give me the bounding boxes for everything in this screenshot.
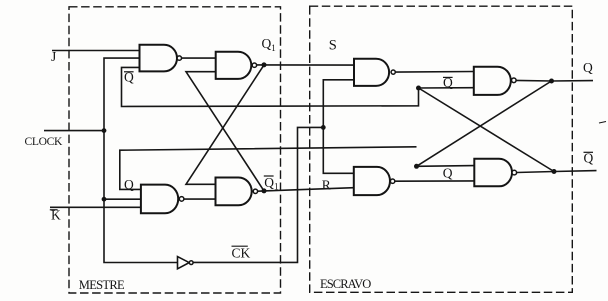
wire Q1bar output to slave R input xyxy=(258,188,354,192)
nand gate D (master latch bottom NAND) xyxy=(216,178,252,206)
nand gate G (slave R NAND) xyxy=(354,167,390,195)
overline of Qbar output xyxy=(584,151,594,153)
wire J input xyxy=(52,50,140,52)
svg-text:Q: Q xyxy=(443,166,453,181)
nand gate H (slave latch bottom NAND) xyxy=(474,159,512,187)
junction CLOCK to gate C xyxy=(102,197,107,202)
overline of Q1bar xyxy=(264,175,274,177)
bubble gate C xyxy=(179,197,184,202)
wire Qbar feedback (slave H output to master gate A) xyxy=(122,67,419,106)
svg-text:CK: CK xyxy=(232,246,251,261)
stray scan mark right edge xyxy=(599,122,606,124)
nand gate F (slave latch top NAND) xyxy=(474,67,511,95)
wire CKbar net (inverter out, riser, branches to gates E and G) xyxy=(193,127,323,262)
overline of Qbar at gate A xyxy=(124,71,134,73)
bubble inverter xyxy=(189,261,193,265)
overline of CKbar xyxy=(232,245,248,247)
nand gate A (J input, 3-in NAND) xyxy=(140,45,178,72)
wire Qbar output xyxy=(517,171,597,173)
overline of K label xyxy=(50,209,58,211)
wire Qbar cross-couple to gate F input xyxy=(419,87,475,89)
wire gate B second input cross from Q1bar xyxy=(186,72,264,191)
svg-text:Q1: Q1 xyxy=(262,36,276,53)
svg-text:Q: Q xyxy=(124,177,134,192)
wire CLOCK lead xyxy=(44,130,104,132)
wire K input xyxy=(50,206,141,208)
bubble gate A xyxy=(177,56,181,60)
bubble gate B xyxy=(252,63,256,67)
wire CLOCK branch to gate C xyxy=(104,198,141,200)
svg-text:J: J xyxy=(51,49,56,64)
junction Q1bar node xyxy=(262,188,267,193)
junction Q branch node xyxy=(414,164,419,169)
wire Q diagonal from F output node xyxy=(417,81,552,166)
junction CKbar branch node xyxy=(321,125,326,130)
svg-text:ESCRAVO: ESCRAVO xyxy=(320,277,371,291)
wire gate E output to gate F xyxy=(395,71,474,74)
svg-text:Q1: Q1 xyxy=(264,175,278,192)
nand gate E (slave S NAND) xyxy=(354,59,389,86)
wire gate G output to gate H xyxy=(395,180,475,182)
overline of Qbar at gate F xyxy=(443,76,453,78)
bubble gate G xyxy=(390,179,394,183)
wire Qbar diagonal from H output node xyxy=(419,88,555,172)
bubble gate F xyxy=(512,78,517,83)
wire Q1 output to slave S input xyxy=(257,64,354,66)
bubble gate H xyxy=(512,170,517,175)
wire Q cross-couple to gate H input xyxy=(417,165,475,168)
junction Q1 node xyxy=(262,62,267,67)
dashed box ESCRAVO (slave section) xyxy=(310,6,573,292)
dashed box MESTRE (master section) xyxy=(69,7,281,293)
svg-text:CLOCK: CLOCK xyxy=(25,135,64,148)
bubble gate E xyxy=(391,70,395,74)
svg-text:Q: Q xyxy=(583,60,593,75)
wire Q feedback (slave F output to master gate C) xyxy=(120,147,417,190)
svg-text:S: S xyxy=(329,37,337,53)
nand gate C (K input, 3-in NAND) xyxy=(141,185,178,214)
bubble gate D xyxy=(253,189,257,193)
wire Q output xyxy=(516,79,593,82)
svg-text:MESTRE: MESTRE xyxy=(79,278,125,292)
junction CLOCK node xyxy=(102,128,107,133)
inverter (clock CK inverter) xyxy=(178,257,190,269)
wire CLOCK rail xyxy=(104,58,178,262)
junction Qbar output node xyxy=(552,169,557,174)
junction Q output node xyxy=(549,79,554,84)
svg-text:R: R xyxy=(322,177,331,192)
junction Qbar branch node xyxy=(416,86,421,91)
wire gate D first input cross from Q1 xyxy=(186,65,264,184)
nand gate B (master latch top NAND) xyxy=(216,52,252,79)
wire gate A output to gate B xyxy=(182,57,216,59)
wire gate C output to gate D xyxy=(184,198,216,200)
